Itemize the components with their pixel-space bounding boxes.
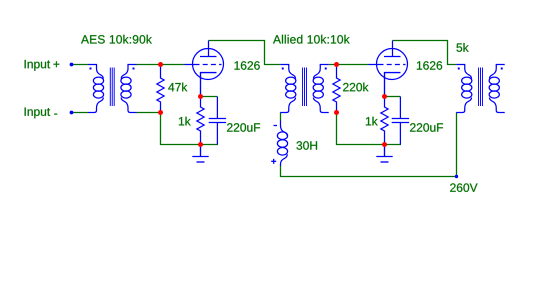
wire input- to T1 primary xyxy=(72,112,89,114)
transformer T1 AES 10k:90k xyxy=(88,65,137,113)
label 220uF (stage 1) xyxy=(227,123,260,132)
wire cathode rail stage 1 xyxy=(161,113,219,145)
node ground stage 1 xyxy=(198,142,203,147)
node grid V1 / R1 top xyxy=(158,62,163,67)
label Input - xyxy=(25,108,50,119)
label 220k xyxy=(343,83,368,92)
node cathode V2 xyxy=(382,94,387,99)
transformer T2 Allied 10k:10k xyxy=(280,65,329,113)
ground (stage 1) xyxy=(192,145,208,162)
wire cathode V1 to C1 xyxy=(201,96,218,98)
label 1k (stage 2) xyxy=(366,117,378,126)
node R1 bottom xyxy=(158,110,163,115)
label 1626 (V2) xyxy=(417,61,442,70)
ground (stage 2) xyxy=(376,145,392,162)
choke L1 30H xyxy=(277,121,287,167)
wire T2 secondary bottom rail stage 2 xyxy=(337,113,402,145)
node 260V xyxy=(455,175,458,178)
label AES 10k:90k xyxy=(81,35,152,44)
junction dots (red) xyxy=(158,62,387,147)
wire T2 primary bottom to choke L1 xyxy=(280,113,282,121)
wire choke bottom to B+ rail xyxy=(281,166,457,177)
resistor R3 220k xyxy=(333,65,340,113)
tube V2 1626 xyxy=(369,41,408,97)
node ground stage 2 xyxy=(382,142,387,147)
node grid V2 / R3 top xyxy=(334,62,339,67)
label 30H xyxy=(296,141,317,150)
label 220uF (stage 2) xyxy=(410,123,443,132)
wire T1 secondary bottom xyxy=(137,112,161,114)
wire plate V1 to T2 primary xyxy=(209,41,281,65)
resistor R2 1k (stage 1 cathode) xyxy=(197,97,204,145)
terminal input + xyxy=(70,63,74,67)
choke polarity marks xyxy=(271,126,277,164)
wire T2 secondary top to grid V2 xyxy=(329,64,369,66)
label Allied 10k:10k xyxy=(273,35,350,44)
label Input + xyxy=(25,60,50,71)
capacitor C2 220uF xyxy=(392,97,409,145)
label 47k xyxy=(168,83,187,92)
wire T1 secondary top to grid V1 xyxy=(137,64,185,66)
label 5k xyxy=(456,43,468,52)
node R3 bottom xyxy=(334,110,339,115)
capacitor C1 220uF xyxy=(209,97,226,145)
label 1626 (V1) xyxy=(235,61,260,70)
wire input+ to T1 primary xyxy=(72,64,89,66)
wire plate V2 to T3 primary top xyxy=(393,41,457,65)
wire cathode V2 to C2 xyxy=(385,96,401,98)
resistor R1 47k xyxy=(157,65,164,113)
label 1k (stage 1) xyxy=(179,117,191,126)
wire B+ rail to T3 primary bottom xyxy=(456,113,458,177)
terminal input - xyxy=(70,111,74,115)
tube V1 1626 xyxy=(185,41,224,97)
node cathode V1 xyxy=(198,94,203,99)
transformer T3 output 5k xyxy=(456,65,505,113)
label 260V xyxy=(450,183,477,192)
resistor R4 1k (stage 2 cathode) xyxy=(381,97,388,145)
terminal dots (blue) xyxy=(70,63,459,179)
